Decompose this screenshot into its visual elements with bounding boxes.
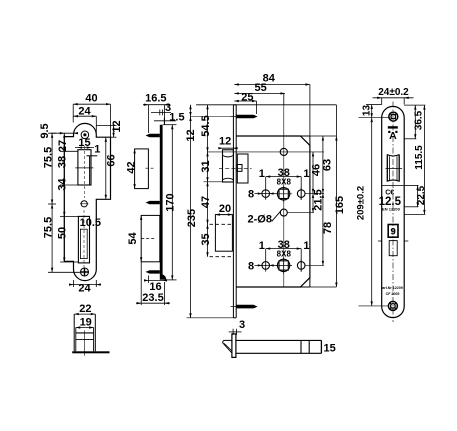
2-d8 hole (280, 209, 287, 216)
svg-text:31: 31 (200, 160, 212, 172)
lower spindle group: 38 dim (266, 247, 302, 271)
svg-text:CF 2005: CF 2005 (386, 292, 400, 296)
FIG4 faceplate front view (356, 87, 427, 322)
svg-text:63: 63 (321, 159, 333, 171)
plate centerline (392, 102, 394, 323)
svg-text:235: 235 (186, 209, 198, 227)
svg-text:22.5: 22.5 (416, 185, 427, 205)
svg-text:42: 42 (125, 161, 137, 173)
dim 16.5 (143, 104, 170, 134)
dim 66 right (105, 137, 107, 199)
deadbolt slot 10.5x50 (78, 216, 89, 263)
svg-text:36.5: 36.5 (414, 110, 425, 130)
dim 22.5 (404, 185, 419, 206)
svg-text:13: 13 (362, 105, 373, 117)
case bottom edge extension (310, 286, 337, 288)
FIG5 latch bolt side view (223, 319, 336, 358)
svg-text:8: 8 (248, 188, 254, 200)
svg-text:54.5: 54.5 (200, 115, 212, 136)
svg-text:3: 3 (239, 319, 245, 331)
svg-text:21.5: 21.5 (313, 189, 325, 210)
latch bevel head (223, 340, 232, 352)
svg-text:8: 8 (248, 260, 254, 272)
dim 3 plate thickness (151, 110, 171, 116)
fig2 labels (125, 93, 184, 305)
latch hole 15x38 (78, 150, 91, 185)
9mm square spindle hole (388, 225, 398, 238)
svg-text:40: 40 (85, 93, 97, 105)
bottom screw hole (81, 268, 89, 276)
dim 20 deadbolt (215, 213, 232, 215)
dim 40 top (73, 103, 110, 137)
bottom fixing screw (black, pointing right) (236, 305, 257, 309)
dim 170 (163, 125, 177, 280)
svg-text:24: 24 (78, 283, 91, 295)
dim 42 (133, 149, 135, 189)
svg-text:15: 15 (78, 137, 90, 149)
strike plate edge (black) (160, 125, 167, 280)
upper spindle square 8x8 (277, 188, 289, 200)
svg-text:75.5: 75.5 (43, 217, 55, 238)
dim 12 right (96, 126, 116, 138)
screw middle (146, 201, 160, 204)
lower right hole (297, 262, 305, 270)
maker logo (388, 126, 398, 128)
dim 24 bottom (69, 280, 101, 287)
svg-text:2-Ø8: 2-Ø8 (248, 214, 272, 226)
svg-text:165: 165 (334, 196, 346, 214)
svg-text:art.Nr 12209: art.Nr 12209 (382, 286, 403, 290)
dim 1.5 (154, 118, 176, 124)
svg-text:209±0.2: 209±0.2 (356, 186, 367, 220)
box inner lines (76, 332, 94, 334)
upper right hole (297, 190, 305, 198)
dim 8 upper left (255, 192, 277, 194)
box outer walls (73, 314, 75, 351)
middle screw hole (81, 201, 87, 207)
dim 84 top (234, 83, 310, 136)
svg-text:1: 1 (259, 168, 265, 180)
dim 23.5 bottom (136, 262, 170, 305)
svg-text:19: 19 (80, 317, 92, 329)
svg-text:8X8: 8X8 (277, 178, 292, 187)
dim 19 line (76, 327, 94, 329)
svg-text:12: 12 (219, 136, 231, 148)
left dim line 12/235 (187, 105, 234, 318)
faceplate outline (382, 106, 405, 317)
svg-text:1: 1 (303, 168, 309, 180)
FIG2 strike side view (125, 93, 184, 306)
latch bolt tail inside case (237, 154, 248, 183)
dim 9.5 (51, 132, 79, 134)
deadbolt slot (389, 241, 397, 256)
box inner walls (75, 328, 77, 352)
svg-text:115.5: 115.5 (414, 145, 425, 170)
latch dust box 42 (135, 149, 149, 189)
svg-text:38: 38 (56, 156, 68, 168)
svg-text:170: 170 (165, 193, 177, 211)
dim 16 bottom (144, 276, 167, 284)
faceplate strip (232, 105, 234, 318)
svg-text:24: 24 (78, 106, 91, 118)
deadbolt head (protruding) (215, 215, 232, 252)
top screw (389, 112, 398, 121)
svg-text:47: 47 (200, 196, 212, 208)
svg-text:25: 25 (241, 92, 253, 104)
left dim line 54.5/31/47/35 (204, 105, 234, 257)
dim 55 top (234, 92, 285, 105)
svg-text:9: 9 (391, 227, 396, 238)
dim 54 (140, 215, 142, 261)
strike plate bar (black) (72, 351, 109, 353)
top screw hole (81, 131, 89, 139)
dim 25 top (234, 100, 256, 114)
latch bolt head (protruding) (223, 150, 234, 182)
right dim line 46/21.5 (312, 152, 314, 213)
svg-text:1: 1 (303, 240, 309, 252)
dim 13 (359, 105, 391, 118)
dim 115.5 (404, 105, 425, 214)
svg-text:27: 27 (57, 140, 69, 152)
svg-text:10.5: 10.5 (80, 217, 101, 229)
svg-text:15: 15 (324, 342, 336, 354)
fig3 labels (185, 73, 346, 273)
svg-text:1: 1 (94, 144, 100, 156)
right dim line 63/78 (322, 136, 324, 265)
bolt dust box 54 (141, 215, 160, 261)
svg-text:20: 20 (219, 203, 231, 215)
top fixing screw (black, pointing right) (236, 115, 257, 119)
dim 8 lower left (255, 264, 277, 266)
strike plate outline (64, 123, 110, 280)
dim 36.5 (404, 105, 425, 139)
dim 22 line (74, 313, 95, 315)
upper left hole (262, 190, 270, 198)
FIG3 lock case side view (185, 73, 346, 318)
dim 24+-0.2 top (373, 97, 414, 105)
svg-text:22: 22 (79, 303, 91, 315)
svg-text:1.5: 1.5 (169, 112, 184, 124)
svg-text:66: 66 (106, 154, 118, 166)
bottom screw (388, 301, 397, 310)
fig1 labels (39, 93, 123, 295)
svg-text:16.5: 16.5 (145, 93, 166, 105)
dim 209+-0.2 (359, 118, 390, 306)
faceplate section (232, 334, 236, 358)
case top edge extension (310, 135, 337, 137)
screw top (146, 134, 160, 137)
FIG6 strike box section (72, 303, 109, 356)
svg-text:12: 12 (185, 129, 197, 141)
fig6 labels (79, 303, 92, 329)
dim 12 latch head width (218, 147, 237, 149)
svg-text:8X8: 8X8 (277, 250, 292, 259)
top reference line (196, 104, 336, 106)
svg-text:EN 12209: EN 12209 (382, 207, 401, 212)
fig4 labels (356, 87, 427, 220)
svg-text:78: 78 (322, 222, 334, 234)
upper spindle group: 38 dim (266, 175, 302, 199)
svg-text:9.5: 9.5 (39, 123, 51, 138)
svg-text:75.5: 75.5 (43, 147, 55, 168)
lock case body with chamfered right corners (236, 136, 310, 287)
dim 24 top (74, 115, 97, 133)
latch bar (236, 339, 322, 341)
svg-text:24±0.2: 24±0.2 (378, 87, 409, 98)
svg-text:55: 55 (254, 82, 266, 94)
fig5 labels (239, 319, 336, 355)
screw bottom (146, 270, 160, 273)
latch opening with latch bolt (386, 154, 388, 181)
dim 3 (229, 329, 242, 335)
vertical centerline through spindle holes (283, 105, 285, 287)
dim chain inner 27/38/34/50 (60, 133, 78, 262)
svg-text:54: 54 (127, 232, 139, 245)
FIG1 strike plate front view (39, 93, 123, 295)
lower spindle square 8x8 (277, 259, 289, 271)
svg-text:34: 34 (56, 178, 68, 191)
upper hole center line (208, 151, 325, 153)
svg-text:35: 35 (200, 233, 212, 245)
center line (84, 331, 86, 356)
dim chain outer 75.5/75.5 (48, 133, 80, 272)
right dim line 165 (335, 105, 337, 287)
spindle center line right extensions (305, 192, 324, 194)
svg-text:1: 1 (259, 240, 265, 252)
svg-text:12: 12 (111, 120, 123, 132)
lower left hole (262, 262, 270, 270)
svg-text:50: 50 (56, 227, 68, 239)
upper hole (280, 148, 287, 155)
svg-text:23.5: 23.5 (142, 292, 163, 304)
